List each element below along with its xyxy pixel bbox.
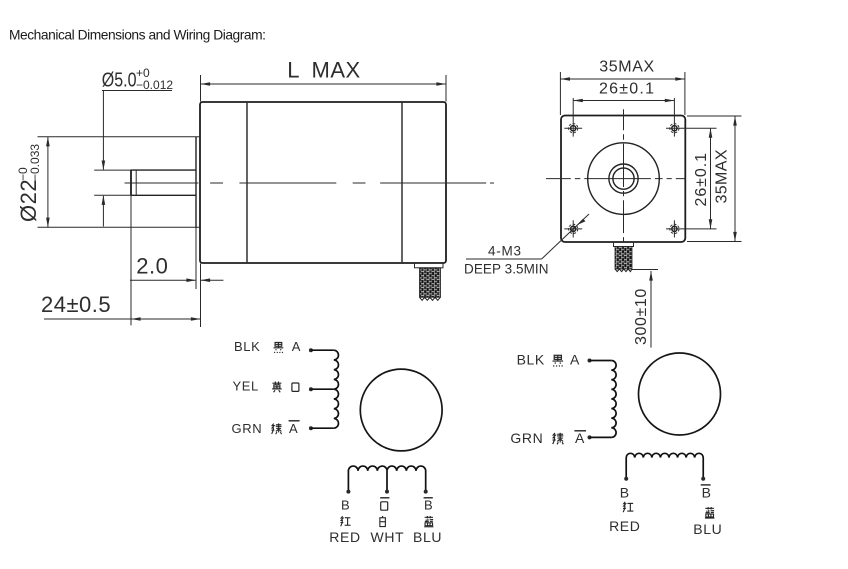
coil phase B (horizontal, 4+4 loops with center tap) [348,466,425,492]
front cable braid [615,247,632,270]
2.0 arrow pointing right at boss face [186,278,196,282]
26 top right arrow [665,99,675,103]
35MAX right extension line top [687,115,742,117]
26±0.1 top dimension line [573,100,674,102]
24 dimension line [44,318,201,320]
hanzi red [340,516,350,526]
35MAX right dimension line [734,116,736,242]
Ø5.0 leader underline [102,90,172,92]
svg-text:GRN: GRN [510,430,543,446]
dot B [346,490,350,494]
dot B right [624,477,628,481]
Ø22 rotated dimension text [16,144,42,222]
front square flange [561,116,685,243]
screw hole top-left [564,124,582,133]
26±0.1 top extension line right (through TR hole) [673,98,675,137]
screw hole bottom-left [564,220,582,237]
svg-text:35MAX: 35MAX [599,59,654,76]
svg-text:BLK: BLK [234,339,260,354]
A overline [289,420,300,422]
dot O (center tap) [385,490,389,494]
Ø5.0 dimension line upper [102,91,104,170]
35MAX top left arrow [560,77,570,81]
svg-text:A: A [289,421,298,436]
wire lead A [311,349,334,351]
svg-text:GRN: GRN [232,421,263,436]
svg-text:L MAX: L MAX [287,58,360,83]
coil phase A (vertical, 8 loops) [334,350,339,428]
2.0 arrow pointing left at body face [201,278,211,282]
Ø5.0 dimension line lower [102,196,104,227]
coil phase B right (horizontal, 9 loops) [626,453,703,478]
square O symbol with overline [381,502,388,510]
screw hole top-right [670,124,679,133]
24 left arrow [131,317,141,321]
hanzi green [271,423,281,434]
svg-text:4-M3: 4-M3 [488,244,521,259]
dot B-bar [424,490,428,494]
shaft bottom extension line [94,194,130,196]
boss top edge + Ø22 extension line [38,136,200,138]
svg-text:B: B [424,498,433,513]
rotor circle right [639,353,721,435]
2.0 dimension line left part [130,279,196,281]
Ø22 top arrow [46,137,50,147]
hanzi green right [553,433,564,445]
svg-text:24±0.5: 24±0.5 [41,292,111,317]
35MAX top extension line left [559,72,561,115]
svg-text:RED: RED [609,518,640,534]
A-bar overline right [574,430,586,432]
hanzi black [273,342,283,353]
L MAX dimension line [201,83,447,85]
dot B-bar right [701,477,705,481]
svg-text:BLU: BLU [413,529,442,545]
front cable connector [614,242,634,246]
svg-text:A: A [292,339,301,354]
boss bottom edge + Ø22 extension line [38,226,200,228]
L MAX extension line left [200,75,202,102]
26±0.1 right extension line top (from TR hole) [666,127,717,129]
L MAX extension line right [445,75,447,102]
note leader line [542,214,589,259]
24 extension line at shaft end [130,196,132,326]
shaft inner circle [613,168,634,189]
motor body outline [200,102,446,263]
hanzi white [380,516,386,527]
body end-cap line left [246,103,248,262]
svg-text:Ø22: Ø22 [16,179,41,222]
front boss circle [588,143,660,215]
svg-text:RED: RED [329,529,360,545]
26 right bottom arrow [709,219,713,229]
O overline [380,497,389,499]
dot lead O [309,387,313,391]
svg-text:−0.012: −0.012 [136,78,173,92]
svg-text:B: B [341,498,350,513]
coil B center tap wire [386,471,388,492]
screw hole bottom-right [670,220,679,237]
35MAX top extension line right [684,72,686,115]
shaft top extension line [94,169,130,171]
35 right top arrow [733,116,737,126]
26±0.1 top extension line left (through TL hole) [572,98,574,137]
side cable frayed end [420,297,441,300]
wire lead A-bar [311,427,334,429]
Ø5.0 lower arrow [102,195,106,205]
wire lead A right [590,360,612,362]
300±10 dimension line [650,271,652,348]
square O symbol [292,383,299,391]
svg-text:B: B [702,484,712,500]
svg-text:−0.033: −0.033 [28,144,42,181]
35MAX right extension line bottom [687,241,742,243]
front cable frayed end [615,269,632,272]
B-bar overline [424,497,433,499]
300±10 arrow [649,271,653,281]
svg-text:300±10: 300±10 [633,288,650,345]
svg-text:26±0.1: 26±0.1 [599,81,654,98]
shaft outer circle [609,164,638,193]
pilot boss face [195,137,197,228]
hanzi blue [424,516,433,527]
svg-text:BLK: BLK [517,352,545,368]
svg-text:35MAX: 35MAX [714,149,731,203]
svg-text:2.0: 2.0 [136,253,168,278]
Ø22 dimension line [47,137,49,227]
dot lead A-bar right [588,435,592,439]
26 right top arrow [709,128,713,138]
shaft bottom line [131,194,196,196]
26±0.1 right extension line bottom (from BR hole) [666,228,717,230]
L MAX right arrow [436,82,446,86]
svg-text:DEEP 3.5MIN: DEEP 3.5MIN [464,262,549,277]
hanzi red right [623,502,633,512]
note leader arrow [577,219,586,226]
svg-text:A: A [575,430,585,446]
coil phase A right (vertical, 8 loops) [611,361,616,438]
dot lead A [309,348,313,352]
24 extension line at body face [200,264,202,328]
svg-text:WHT: WHT [371,529,405,545]
wire lead A-bar right [590,436,612,438]
24 right arrow [191,317,201,321]
boss face extension line down [195,228,197,289]
hanzi yellow [272,382,282,393]
rotor circle left [360,369,442,451]
svg-text:A: A [570,352,580,368]
Ø5.0 upper arrow [102,161,106,171]
shaft top line [131,169,196,171]
26 top left arrow [573,99,583,103]
svg-text:26±0.1: 26±0.1 [693,153,710,207]
centerline of side view [125,182,495,184]
body end-cap line right [401,103,403,262]
svg-text:YEL: YEL [233,379,259,394]
300±10 extension line [632,269,658,271]
shaft chamfer line [135,170,137,195]
svg-text:BLU: BLU [693,521,722,537]
svg-text:Ø5.0: Ø5.0 [102,69,137,91]
dot lead A right [588,359,592,363]
hanzi black right [553,355,564,366]
note underline [466,258,542,260]
35MAX top right arrow [675,77,685,81]
35MAX top dimension line [560,78,685,80]
side cable braid [420,268,441,298]
B-bar overline right [701,484,711,486]
front horizontal centerline [546,178,686,180]
35 right bottom arrow [733,232,737,242]
svg-text:B: B [620,484,630,500]
wire lead O [311,388,334,390]
dot lead A-bar [309,426,313,430]
L MAX left arrow [201,82,211,86]
side cable connector [415,263,444,268]
shaft end face [130,170,132,195]
2.0 dimension tail right [201,279,224,281]
svg-text:Mechanical Dimensions and Wiri: Mechanical Dimensions and Wiring Diagram… [9,28,266,43]
hanzi blue right [705,507,714,518]
26±0.1 right dimension line [710,128,712,229]
Ø22 bottom arrow [46,218,50,228]
front vertical centerline [623,109,625,242]
